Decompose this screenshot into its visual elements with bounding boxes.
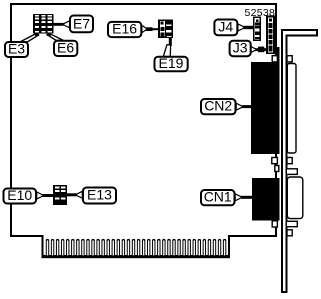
header J3 (vertical pin header): [267, 16, 274, 53]
edge connector (card-edge fingers): [42, 239, 231, 258]
svg-text:E13: E13: [87, 187, 112, 203]
svg-text:J4: J4: [218, 19, 233, 35]
screw tab A left: [272, 56, 277, 62]
callout E10: [4, 187, 54, 203]
svg-text:CN2: CN2: [204, 98, 232, 114]
board outline: [11, 4, 276, 257]
callout E6: [47, 33, 78, 56]
svg-text:J3: J3: [233, 40, 248, 56]
jumper block E10/E13: [53, 185, 67, 205]
screw tab C left: [275, 166, 279, 172]
D-sub connector on bracket (bottom): [287, 177, 303, 219]
callout E3: [5, 33, 39, 57]
screw tab D left: [272, 221, 277, 227]
D-sub connector flange top (bottom connector): [286, 169, 297, 175]
callout E16: [108, 21, 159, 38]
screw tab B right: [287, 158, 292, 164]
header J4 (vertical pin header): [254, 17, 261, 40]
screw tab B left: [272, 158, 278, 164]
connector CN2 rear nub: [275, 47, 280, 63]
svg-text:E16: E16: [112, 21, 137, 37]
svg-text:E6: E6: [57, 39, 74, 55]
callout E7: [54, 16, 94, 33]
callout CN1: [201, 189, 253, 206]
mounting bracket: [281, 29, 318, 293]
svg-text:E10: E10: [7, 187, 32, 203]
svg-text:E19: E19: [159, 55, 184, 71]
svg-text:CN1: CN1: [204, 189, 232, 205]
screw tab A right: [287, 56, 292, 62]
connector CN2 (internal header, solid): [251, 62, 280, 154]
screw tab D right: [287, 230, 292, 236]
callout E13: [67, 187, 117, 204]
connector CN1 (internal header, solid): [252, 178, 280, 221]
callout E19: [155, 38, 188, 72]
jumper block E16/E19: [158, 20, 173, 39]
svg-text:E3: E3: [8, 40, 25, 56]
callout J3: [230, 40, 268, 57]
callout J4: [214, 19, 254, 36]
D-sub connector on bracket (top): [287, 64, 296, 154]
callout CN2: [201, 98, 252, 115]
jumper block E3/E6/E7: [33, 14, 54, 36]
D-sub connector flange bottom (bottom connector): [286, 221, 297, 226]
svg-text:E7: E7: [73, 16, 90, 32]
